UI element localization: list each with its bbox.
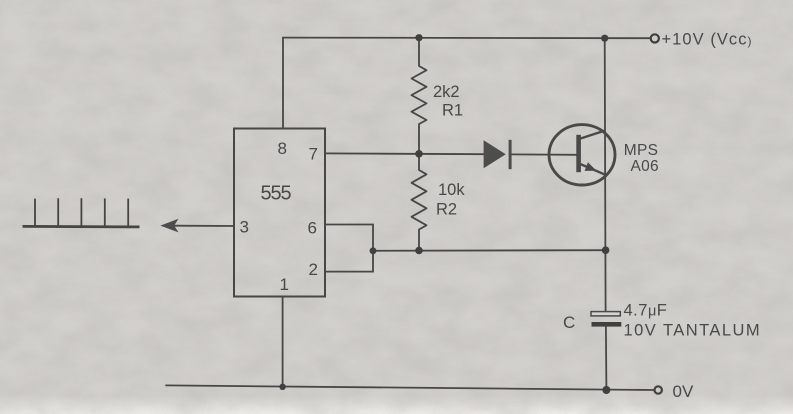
wire: diode cathode to transistor base	[511, 153, 577, 155]
svg-text:6: 6	[308, 219, 317, 238]
wire: 0V bottom rail	[166, 385, 655, 390]
svg-text:10V TANTALUM: 10V TANTALUM	[624, 321, 762, 339]
transistor Q1 MPS A06	[549, 125, 615, 185]
wire: node row pins 6/2 to collector line	[373, 249, 606, 252]
svg-text:MPS: MPS	[624, 142, 659, 159]
terminal: +10V	[651, 34, 659, 42]
wire: collector/emitter vertical line (top rail to capacitor)	[604, 38, 607, 311]
svg-text:A06: A06	[631, 158, 659, 175]
wire: pin 8 riser	[282, 38, 284, 129]
wire: +10V top rail	[283, 37, 651, 40]
node: R1 top / +10V rail	[415, 34, 422, 41]
svg-text:0V: 0V	[673, 382, 694, 401]
svg-text:3: 3	[240, 218, 249, 237]
svg-text:10k: 10k	[438, 181, 465, 199]
terminal: 0V	[655, 386, 662, 393]
output arrow from pin 3	[160, 219, 178, 233]
wire: pin 1 riser	[282, 296, 284, 386]
node: pins 6-2 tie	[370, 247, 377, 254]
svg-text:+10V (Vcc): +10V (Vcc)	[662, 31, 753, 49]
pulse waveform	[23, 198, 140, 227]
resistor R2 10k	[412, 154, 427, 251]
svg-text:R1: R1	[442, 102, 463, 120]
svg-text:555: 555	[261, 183, 292, 205]
svg-text:R2: R2	[436, 201, 457, 219]
wire: capacitor to 0V rail	[605, 326, 608, 390]
diode D1	[484, 140, 512, 169]
node: threshold row / vertical line	[602, 246, 610, 254]
node: R2 bottom	[415, 247, 423, 255]
node: collector line / +10V rail	[601, 35, 608, 42]
svg-text:2: 2	[309, 260, 318, 279]
svg-text:4.7μF: 4.7μF	[624, 302, 668, 320]
wire: pin 6 tie	[325, 225, 373, 251]
capacitor C 4.7uF tantalum	[591, 312, 621, 327]
wire: pin 7 to diode anode	[325, 152, 484, 155]
svg-text:1: 1	[280, 275, 289, 294]
svg-text:C: C	[563, 313, 575, 332]
svg-text:2k2: 2k2	[433, 83, 460, 101]
node: pin 1 / 0V rail	[279, 384, 285, 390]
wire: pin 3 output lead	[175, 225, 234, 227]
svg-text:8: 8	[278, 139, 287, 158]
node: capacitor / 0V rail	[602, 386, 610, 394]
IC U1: 555 timer box	[234, 129, 325, 297]
svg-text:7: 7	[309, 145, 318, 164]
resistor R1 2k2	[412, 38, 427, 154]
node: pin7 / R1 / R2 / diode	[415, 150, 423, 158]
wire: pin 2 tie	[325, 251, 373, 272]
